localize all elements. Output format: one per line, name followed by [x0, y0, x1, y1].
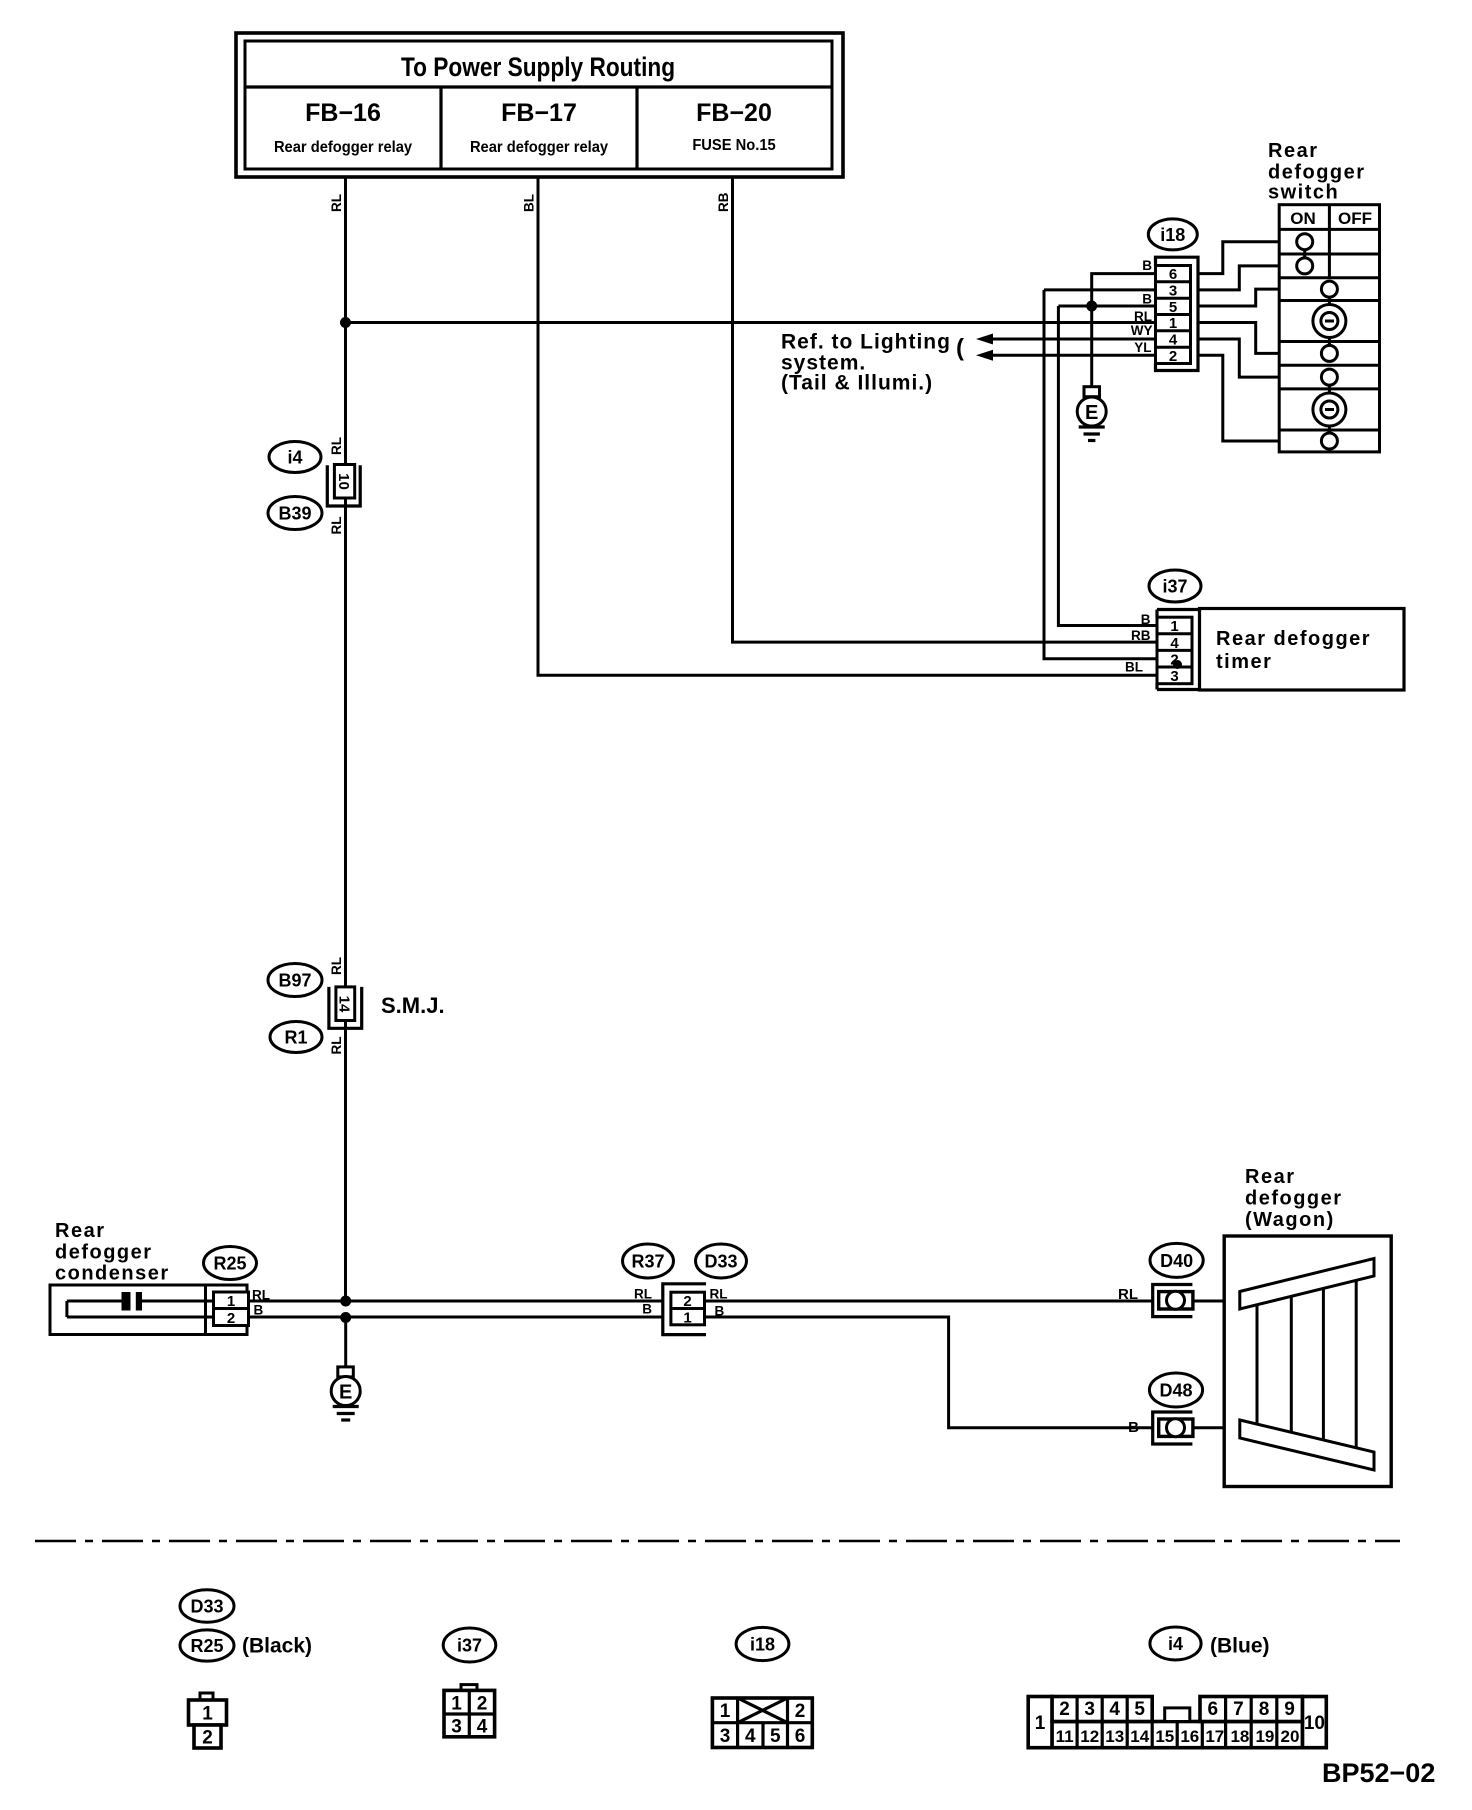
svg-text:RL: RL: [329, 957, 344, 975]
svg-text:18: 18: [1230, 1727, 1249, 1746]
svg-text:3: 3: [451, 1717, 462, 1738]
svg-text:R25: R25: [190, 1636, 223, 1656]
svg-text:R1: R1: [284, 1028, 307, 1048]
svg-text:i18: i18: [1160, 225, 1185, 245]
svg-text:4: 4: [1170, 635, 1179, 652]
svg-text:(: (: [956, 335, 964, 362]
svg-text:4: 4: [477, 1717, 488, 1738]
svg-text:i37: i37: [1162, 577, 1187, 597]
svg-text:1: 1: [1169, 315, 1177, 332]
svg-text:B39: B39: [278, 504, 311, 524]
svg-text:R25: R25: [213, 1254, 246, 1274]
svg-text:switch: switch: [1268, 182, 1339, 204]
svg-text:20: 20: [1281, 1727, 1300, 1746]
svg-text:B: B: [254, 1303, 264, 1318]
svg-text:Ref. to Lighting: Ref. to Lighting: [781, 331, 951, 354]
svg-text:RL: RL: [329, 517, 344, 535]
svg-text:(Blue): (Blue): [1210, 1635, 1270, 1658]
svg-text:12: 12: [1080, 1727, 1099, 1746]
svg-text:defogger: defogger: [1268, 162, 1366, 184]
svg-text:B: B: [1142, 292, 1152, 307]
svg-text:RL: RL: [1134, 309, 1152, 324]
svg-text:5: 5: [1134, 1699, 1145, 1720]
svg-text:5: 5: [770, 1726, 781, 1747]
svg-text:i4: i4: [287, 448, 302, 468]
svg-text:YL: YL: [1134, 340, 1151, 355]
svg-text:i37: i37: [457, 1636, 482, 1656]
svg-text:2: 2: [202, 1728, 213, 1749]
svg-text:BP52−02: BP52−02: [1322, 1758, 1435, 1788]
svg-text:RB: RB: [1131, 628, 1151, 643]
svg-text:S.M.J.: S.M.J.: [381, 993, 445, 1018]
svg-text:FB−16: FB−16: [305, 99, 381, 127]
svg-text:defogger: defogger: [55, 1242, 153, 1264]
svg-text:i4: i4: [1168, 1634, 1183, 1654]
svg-text:Rear: Rear: [1245, 1166, 1295, 1188]
svg-text:FB−20: FB−20: [696, 99, 772, 127]
svg-text:(Tail & Illumi.): (Tail & Illumi.): [781, 372, 933, 395]
svg-text:1: 1: [202, 1704, 213, 1725]
svg-text:10: 10: [335, 473, 352, 490]
svg-text:10: 10: [1304, 1713, 1325, 1734]
svg-text:(Black): (Black): [242, 1635, 312, 1658]
svg-text:11: 11: [1056, 1727, 1074, 1746]
svg-text:13: 13: [1105, 1727, 1124, 1746]
svg-text:R37: R37: [631, 1252, 664, 1272]
svg-text:14: 14: [1130, 1727, 1149, 1746]
svg-text:1: 1: [1170, 618, 1178, 635]
svg-text:4: 4: [745, 1726, 756, 1747]
svg-text:RB: RB: [716, 192, 731, 212]
svg-text:To Power Supply Routing: To Power Supply Routing: [401, 52, 675, 82]
svg-text:RL: RL: [710, 1287, 728, 1302]
svg-text:B: B: [1128, 1419, 1139, 1436]
svg-text:3: 3: [1084, 1699, 1095, 1720]
svg-text:(Wagon): (Wagon): [1245, 1209, 1335, 1231]
svg-text:OFF: OFF: [1338, 209, 1372, 228]
svg-text:2: 2: [477, 1694, 488, 1715]
svg-text:FB−17: FB−17: [501, 99, 577, 127]
svg-text:B97: B97: [278, 971, 311, 991]
svg-text:E: E: [339, 1382, 352, 1404]
svg-text:RL: RL: [329, 437, 344, 455]
svg-text:RL: RL: [1118, 1286, 1138, 1303]
svg-text:BL: BL: [522, 194, 537, 212]
svg-text:D40: D40: [1160, 1251, 1193, 1271]
svg-text:17: 17: [1205, 1727, 1224, 1746]
svg-text:1: 1: [720, 1701, 731, 1722]
svg-text:condenser: condenser: [55, 1263, 170, 1285]
svg-text:timer: timer: [1216, 651, 1272, 673]
svg-text:3: 3: [720, 1726, 731, 1747]
svg-text:6: 6: [795, 1726, 806, 1747]
svg-text:WY: WY: [1131, 323, 1153, 338]
svg-text:3: 3: [1169, 283, 1177, 300]
svg-text:8: 8: [1259, 1699, 1270, 1720]
svg-text:2: 2: [1059, 1699, 1070, 1720]
svg-text:2: 2: [227, 1310, 235, 1327]
svg-text:7: 7: [1233, 1699, 1244, 1720]
svg-text:1: 1: [227, 1293, 235, 1310]
svg-text:15: 15: [1155, 1727, 1174, 1746]
svg-text:4: 4: [1109, 1699, 1120, 1720]
svg-text:1: 1: [683, 1310, 691, 1327]
svg-text:Rear defogger relay: Rear defogger relay: [274, 138, 413, 156]
svg-text:B: B: [642, 1302, 652, 1317]
svg-text:D48: D48: [1159, 1381, 1192, 1401]
svg-text:19: 19: [1255, 1727, 1274, 1746]
svg-text:Rear: Rear: [1268, 140, 1318, 162]
svg-text:6: 6: [1208, 1699, 1219, 1720]
svg-text:RL: RL: [329, 194, 344, 212]
svg-text:6: 6: [1169, 266, 1177, 283]
svg-text:defogger: defogger: [1245, 1188, 1343, 1210]
svg-text:D33: D33: [704, 1252, 737, 1272]
svg-text:9: 9: [1284, 1699, 1295, 1720]
svg-text:4: 4: [1169, 332, 1178, 349]
svg-text:1: 1: [451, 1694, 462, 1715]
svg-text:i18: i18: [750, 1635, 775, 1655]
svg-text:Rear defogger: Rear defogger: [1216, 628, 1371, 650]
svg-text:RL: RL: [634, 1287, 652, 1302]
svg-text:FUSE No.15: FUSE No.15: [692, 136, 776, 154]
svg-text:1: 1: [1035, 1713, 1046, 1734]
svg-text:BL: BL: [1125, 660, 1143, 675]
svg-text:B: B: [1141, 612, 1151, 627]
svg-text:2: 2: [1169, 348, 1177, 365]
svg-text:ON: ON: [1290, 209, 1316, 228]
svg-text:E: E: [1085, 402, 1098, 424]
svg-text:5: 5: [1169, 299, 1177, 316]
svg-text:14: 14: [336, 996, 353, 1013]
svg-text:RL: RL: [329, 1037, 344, 1055]
svg-text:B: B: [1142, 258, 1152, 273]
svg-text:3: 3: [1170, 668, 1178, 685]
svg-text:2: 2: [683, 1293, 691, 1310]
svg-text:2: 2: [795, 1701, 806, 1722]
svg-text:16: 16: [1180, 1727, 1199, 1746]
svg-text:Rear: Rear: [55, 1220, 105, 1242]
svg-text:D33: D33: [190, 1597, 223, 1617]
svg-text:Rear defogger relay: Rear defogger relay: [470, 138, 609, 156]
